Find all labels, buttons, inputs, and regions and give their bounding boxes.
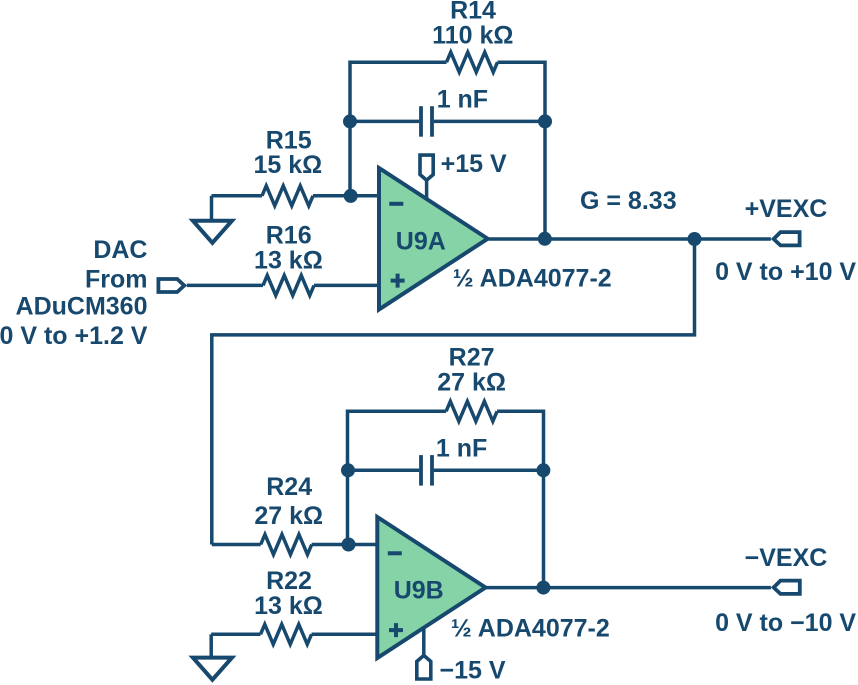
svg-text:0 V to −10 V: 0 V to −10 V [715,609,856,637]
svg-text:+VEXC: +VEXC [745,195,828,223]
svg-text:1 nF: 1 nF [436,435,487,463]
svg-text:0 V to +1.2 V: 0 V to +1.2 V [0,322,148,350]
svg-text:−15 V: −15 V [440,656,506,684]
svg-text:110 kΩ: 110 kΩ [432,22,513,50]
svg-text:R22: R22 [266,567,312,595]
svg-text:ADuCM360: ADuCM360 [16,292,148,320]
svg-text:R27: R27 [449,343,495,371]
svg-text:From: From [85,266,148,294]
svg-text:−VEXC: −VEXC [745,544,828,572]
svg-text:R16: R16 [266,222,312,250]
svg-text:13 kΩ: 13 kΩ [254,592,323,620]
svg-text:½ ADA4077-2: ½ ADA4077-2 [451,615,610,643]
svg-text:+15 V: +15 V [441,150,507,178]
svg-text:27 kΩ: 27 kΩ [437,368,506,396]
svg-text:15 kΩ: 15 kΩ [253,151,322,179]
svg-text:0 V to +10 V: 0 V to +10 V [715,258,856,286]
svg-text:27 kΩ: 27 kΩ [254,502,323,530]
svg-text:U9B: U9B [394,577,444,605]
svg-text:1 nF: 1 nF [437,86,488,114]
svg-text:R24: R24 [266,473,312,501]
svg-text:DAC: DAC [93,236,147,264]
svg-text:G = 8.33: G = 8.33 [580,187,677,215]
svg-text:U9A: U9A [396,228,446,256]
svg-text:½ ADA4077-2: ½ ADA4077-2 [453,265,612,293]
svg-text:13 kΩ: 13 kΩ [254,246,323,274]
